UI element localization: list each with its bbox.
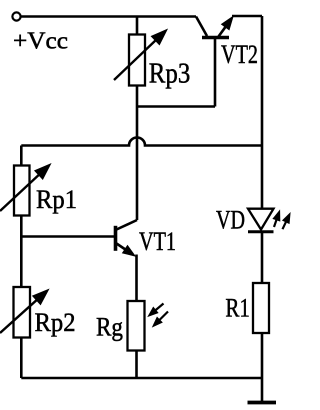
wire Rg bottom lead [135, 351, 138, 379]
light arrows into Rg [148, 304, 168, 327]
resistor Rp2 [14, 287, 31, 338]
ground [248, 401, 277, 405]
arrow of Rp2 [0, 290, 49, 334]
wire Rp3 bottom to VT1 collector [136, 86, 139, 221]
arrow of Rp1 [0, 164, 51, 211]
svg-text:Rg: Rg [96, 313, 123, 342]
resistor Rg [128, 301, 145, 351]
wire right rail between VD and R1 [261, 232, 264, 284]
svg-text:VT1: VT1 [139, 227, 176, 256]
wire mid rail with hop [21, 138, 262, 146]
resistor Rp1 [14, 166, 30, 216]
wire VT2 base link [137, 105, 215, 108]
wire right rail upper [261, 16, 264, 209]
svg-text:Rp2: Rp2 [35, 308, 76, 337]
svg-text:VD: VD [216, 206, 245, 235]
wire bottom rail [21, 377, 262, 380]
wire Rp3 top lead [136, 17, 139, 36]
svg-text:VT2: VT2 [221, 40, 258, 69]
wire VT2 emitter to right rail [232, 15, 262, 18]
svg-text:+Vcc: +Vcc [13, 29, 68, 55]
arrow of Rp3 [114, 30, 167, 81]
svg-text:R1: R1 [225, 293, 250, 322]
wire VT1 base link [21, 235, 114, 238]
resistor Rp3 [129, 35, 145, 86]
wire VT1 emitter to Rg [135, 255, 138, 302]
transistor VT2 [196, 17, 233, 38]
svg-text:Rp1: Rp1 [36, 185, 77, 214]
wire top rail [21, 15, 196, 18]
resistor R1 [253, 283, 269, 333]
wire VT2 base lead [214, 39, 217, 107]
svg-text:Rp3: Rp3 [149, 57, 191, 89]
wire right rail lower [261, 333, 264, 402]
terminal +Vcc [12, 12, 20, 20]
wire left rail [20, 146, 23, 379]
diode VD [248, 209, 274, 232]
light arrows from VD [273, 211, 290, 229]
transistor VT1 [116, 220, 138, 256]
